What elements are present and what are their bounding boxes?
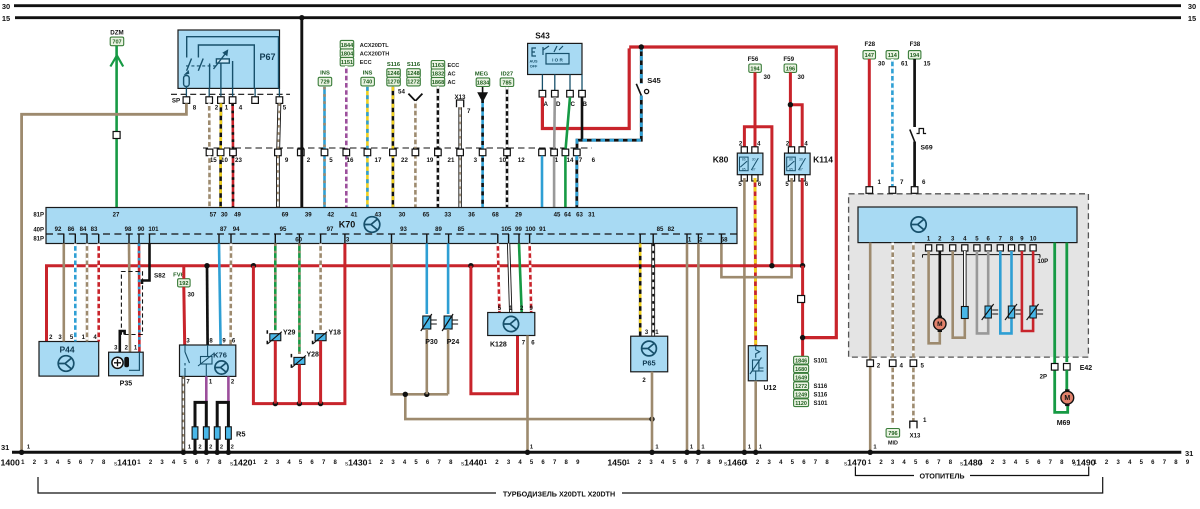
wire 15 supply line	[15, 16, 1181, 19]
svg-text:s1420: s1420	[230, 458, 253, 468]
svg-text:58: 58	[721, 237, 728, 244]
svg-text:Y18: Y18	[329, 330, 342, 337]
wire red K128 loop	[471, 266, 518, 394]
valve Y18	[313, 330, 341, 345]
ECU heater control unit	[858, 207, 1077, 265]
svg-text:AC: AC	[448, 72, 456, 78]
svg-text:147: 147	[865, 53, 874, 59]
svg-text:Y28: Y28	[307, 352, 320, 359]
wire red-blue K70 90 to P35 pin 1	[138, 244, 141, 353]
svg-text:U12: U12	[764, 385, 777, 392]
svg-text:87: 87	[752, 167, 756, 171]
svg-text:1272: 1272	[795, 384, 807, 390]
svg-text:P44: P44	[59, 345, 74, 355]
svg-text:196: 196	[786, 66, 795, 72]
heater module outline	[849, 194, 1089, 357]
wire P67 pin 4 red-black	[231, 103, 234, 149]
svg-text:93: 93	[400, 226, 407, 233]
wire S43 pin B stub	[581, 97, 584, 139]
svg-text:33: 33	[444, 212, 451, 219]
wire brown U12 to ground	[754, 381, 757, 451]
wire white-black K70 82 to P65 pin 1	[651, 244, 655, 337]
svg-text:15: 15	[1188, 14, 1196, 23]
sensor heater pins 5-6	[977, 251, 998, 333]
wire brown-white K70 97 to Y18	[319, 244, 322, 331]
svg-text:S101: S101	[814, 401, 829, 407]
wire white-brown K76 pin 7 to ground	[182, 376, 186, 451]
svg-text:86: 86	[789, 158, 793, 162]
wire to K70 pin 57	[208, 156, 211, 208]
svg-text:10P: 10P	[1038, 259, 1049, 265]
svg-text:1844: 1844	[341, 43, 354, 49]
wire green-brown K70 95 to Y29	[274, 244, 277, 331]
wire black P35 pin 3 shield tail	[120, 331, 125, 352]
svg-text:82: 82	[668, 226, 675, 233]
svg-text:100: 100	[525, 226, 536, 233]
svg-text:P24: P24	[447, 339, 460, 346]
motor M69	[1057, 389, 1074, 427]
wire brown P24 down	[447, 329, 450, 394]
svg-text:S101: S101	[814, 358, 829, 364]
svg-text:s1440: s1440	[461, 458, 484, 468]
svg-text:1680: 1680	[795, 367, 807, 373]
svg-text:30: 30	[1188, 2, 1196, 11]
svg-text:ТУРБОДИЗЕЛЬ X20DTL X20DTH: ТУРБОДИЗЕЛЬ X20DTL X20DTH	[503, 490, 615, 499]
svg-text:30: 30	[878, 61, 885, 68]
svg-text:DZM: DZM	[110, 30, 123, 37]
sensor heater pins 9-10	[1022, 251, 1043, 331]
svg-text:1270: 1270	[387, 80, 399, 86]
svg-text:1249: 1249	[795, 392, 807, 398]
svg-text:2: 2	[198, 445, 201, 451]
wire blue-brown to K70 pin 42	[323, 87, 326, 208]
svg-text:10: 10	[499, 157, 506, 164]
svg-text:31: 31	[1, 443, 9, 452]
fuse FV6 192	[173, 273, 195, 299]
wire red F56 to K80 pin 4	[754, 72, 757, 147]
connector S116 1246 1270	[387, 62, 406, 96]
svg-text:S116: S116	[407, 62, 421, 68]
wire P67 pin 1 yellow-black	[219, 103, 222, 149]
wire red-white K70 83 to P44 pin 4	[97, 244, 100, 342]
wire brown P67 SP pin 8 to ground	[22, 103, 187, 451]
svg-text:60: 60	[295, 237, 302, 244]
svg-text:45: 45	[554, 212, 561, 219]
wire to K70 pin 30	[219, 156, 222, 208]
wire green E42 to M69	[1065, 370, 1068, 391]
resistor R5 block	[192, 427, 245, 439]
svg-text:7: 7	[900, 179, 904, 186]
svg-text:43: 43	[375, 212, 382, 219]
svg-text:30: 30	[221, 212, 228, 219]
svg-text:42: 42	[327, 212, 334, 219]
node S43 pin letters	[543, 101, 587, 108]
svg-text:F28: F28	[864, 41, 875, 48]
wire brown-white to K70 pin 65	[414, 101, 417, 208]
connector X13 bottom	[910, 417, 927, 440]
svg-text:A: A	[543, 101, 548, 108]
wire green S43 pin C to K70 pin 64	[566, 97, 570, 149]
svg-text:1450: 1450	[607, 458, 626, 468]
svg-text:785: 785	[502, 80, 511, 86]
connector E42 2P	[1040, 364, 1093, 381]
svg-text:5: 5	[329, 157, 333, 164]
svg-text:40P: 40P	[33, 228, 44, 234]
svg-text:D: D	[556, 101, 561, 108]
svg-text:OFF: OFF	[530, 65, 538, 69]
svg-text:9: 9	[285, 157, 289, 164]
relay K128	[488, 306, 536, 349]
svg-text:2P: 2P	[1040, 375, 1047, 381]
wire red F59 to K114 pins 2 and 4	[788, 72, 803, 147]
wire red K80 pin 2 to red rail	[744, 127, 772, 266]
wire yellow-black K70 85 to P65 pin 3	[639, 244, 642, 337]
wire 30 supply line	[14, 4, 1181, 7]
K70 top pin labels	[113, 212, 596, 219]
svg-text:AC: AC	[448, 80, 456, 86]
svg-text:P35: P35	[120, 381, 133, 388]
svg-text:87: 87	[220, 226, 227, 233]
svg-text:21: 21	[448, 157, 455, 164]
svg-text:2: 2	[231, 445, 234, 451]
wire brown K70 98 to P35 pin 2	[129, 244, 130, 353]
svg-text:4: 4	[900, 363, 904, 370]
svg-text:AUS: AUS	[529, 60, 537, 64]
wire red top rail	[629, 44, 836, 337]
svg-text:s1470: s1470	[844, 458, 867, 468]
wire black-cyan S45 branch	[577, 47, 641, 149]
svg-text:3: 3	[474, 157, 478, 164]
svg-text:S45: S45	[647, 76, 661, 85]
wire red main rail row	[47, 263, 806, 342]
svg-text:K76: K76	[213, 351, 227, 360]
wire brown K70 92 to P44 pin 3	[62, 244, 65, 342]
svg-text:54: 54	[398, 89, 405, 96]
svg-text:1868: 1868	[432, 80, 444, 86]
svg-text:Y29: Y29	[283, 330, 296, 337]
sensor P30	[421, 314, 437, 331]
wire red Y28 down	[298, 364, 301, 403]
svg-text:30: 30	[799, 158, 803, 162]
wire red K114 pin 6 to S101 feed	[801, 178, 804, 266]
svg-text:2: 2	[209, 445, 212, 451]
wire blue-white 114 to heater unit	[891, 59, 894, 208]
switch S45	[636, 76, 661, 96]
svg-text:98: 98	[125, 226, 132, 233]
svg-text:95: 95	[280, 226, 287, 233]
bracket turbodiesel label	[38, 477, 1103, 499]
sensor P65	[631, 330, 668, 384]
wire brown K114 pin 5 to K70 pin 58	[721, 178, 791, 277]
connector DZM 707	[110, 30, 124, 46]
svg-text:85: 85	[657, 226, 664, 233]
svg-text:1832: 1832	[432, 71, 444, 77]
svg-text:1120: 1120	[795, 401, 807, 407]
svg-text:X13: X13	[910, 434, 921, 440]
svg-text:S69: S69	[921, 145, 933, 152]
svg-text:ID27: ID27	[501, 72, 513, 78]
svg-text:M: M	[1064, 395, 1070, 402]
svg-text:1804: 1804	[341, 51, 354, 57]
wire red S101 drop	[798, 266, 806, 357]
svg-text:22: 22	[401, 157, 408, 164]
wire red FV6 to K76 pin 3	[182, 266, 185, 279]
svg-text:192: 192	[179, 281, 188, 287]
wire black-white to K70 pin 33	[437, 86, 440, 207]
wire brown K128 pin 6 to ground	[526, 336, 529, 452]
connector inline on DZM wire	[113, 132, 120, 139]
wire brown-white K70 94 to K76 pin 6	[229, 244, 232, 346]
svg-text:81P: 81P	[33, 213, 44, 219]
svg-text:M69: M69	[1057, 420, 1071, 427]
wire P67 pin 5 white-brown	[278, 103, 279, 149]
connector MID 796	[886, 429, 900, 447]
svg-text:114: 114	[888, 53, 898, 59]
wire green to K70 pin 63	[564, 156, 567, 208]
svg-text:S116: S116	[814, 392, 828, 398]
svg-text:1834: 1834	[477, 80, 490, 86]
svg-text:86: 86	[742, 158, 746, 162]
svg-text:K70: K70	[339, 220, 356, 230]
svg-text:30: 30	[764, 74, 771, 81]
sensor heater pins 7-8	[1000, 251, 1021, 333]
svg-text:194: 194	[910, 53, 920, 59]
wire red Y29 down	[274, 341, 277, 404]
svg-text:105: 105	[501, 226, 512, 233]
svg-text:7: 7	[579, 157, 583, 164]
connector heater top squares	[866, 179, 926, 193]
svg-text:94: 94	[233, 226, 240, 233]
svg-text:15: 15	[2, 14, 10, 23]
connector ID27 785	[500, 72, 514, 87]
svg-text:S116: S116	[814, 384, 828, 390]
svg-text:1151: 1151	[341, 60, 353, 66]
sensor U12	[748, 346, 776, 392]
wire black F38 to heater unit	[913, 59, 916, 208]
svg-text:2: 2	[877, 363, 881, 370]
wire green K70 100 to K128 pin 2	[519, 244, 522, 313]
wire white K70 99 to K128 pin 1	[509, 244, 511, 313]
svg-text:s1490: s1490	[1073, 458, 1096, 468]
svg-text:s1430: s1430	[345, 458, 368, 468]
svg-text:87: 87	[799, 167, 803, 171]
connector INS 740	[361, 71, 375, 86]
svg-text:36: 36	[468, 212, 475, 219]
K70 bottom pin labels	[55, 226, 729, 243]
wire white-brown to K70 pin 36	[458, 107, 461, 207]
svg-text:2: 2	[699, 237, 703, 244]
wire blue K70 87 to K76 pin 9	[219, 244, 221, 346]
wire brown-white heater to MID 796	[891, 243, 894, 425]
bracket heater label	[855, 467, 1088, 481]
wire purple K76 pin 2	[227, 376, 230, 402]
svg-text:6: 6	[922, 179, 926, 186]
svg-text:S82: S82	[154, 273, 166, 280]
svg-text:F38: F38	[910, 41, 921, 48]
svg-text:16: 16	[347, 157, 354, 164]
svg-text:29: 29	[515, 212, 522, 219]
svg-text:69: 69	[282, 212, 289, 219]
svg-text:19: 19	[426, 157, 433, 164]
wire black rail to K76 pin 8	[206, 266, 209, 345]
svg-text:7: 7	[467, 108, 471, 115]
svg-text:90: 90	[138, 226, 145, 233]
shield S82	[121, 272, 165, 335]
relay K76	[180, 339, 236, 386]
wire brown K70 2 to ground	[697, 244, 700, 452]
svg-text:12: 12	[518, 157, 525, 164]
wire black-cyan to K70 pin 31	[575, 156, 578, 208]
svg-text:27: 27	[113, 212, 120, 219]
fuse F59 196	[783, 56, 805, 81]
svg-text:K114: K114	[813, 155, 833, 165]
sensor P35	[109, 352, 144, 387]
switch S43	[528, 32, 586, 97]
wire blue K70 89 to P30	[425, 244, 428, 315]
K70 lower connector hooks	[64, 234, 722, 243]
svg-text:64: 64	[564, 212, 571, 219]
wire black-white to K70 pin 29	[506, 87, 509, 208]
wire red Y loop	[253, 244, 345, 407]
svg-text:83: 83	[91, 226, 98, 233]
wire black-yellow to K70 pin 30	[392, 87, 395, 208]
svg-text:F56: F56	[748, 56, 759, 63]
svg-text:MID: MID	[888, 441, 898, 447]
valve Y29	[267, 330, 295, 345]
svg-text:23: 23	[235, 157, 242, 164]
svg-text:5: 5	[921, 363, 925, 370]
svg-text:I O R: I O R	[552, 58, 563, 63]
svg-text:ECC: ECC	[360, 60, 372, 66]
svg-text:30: 30	[752, 158, 756, 162]
connector 1163 1832 1868 ECC AC	[431, 61, 459, 87]
wire brown K70 93 net	[392, 244, 655, 422]
node P30 P24 labels	[425, 339, 459, 346]
svg-text:30: 30	[399, 212, 406, 219]
connector row P67 pins	[171, 88, 290, 111]
wire brown K80 pin 5 to ground	[743, 178, 746, 451]
svg-text:15: 15	[924, 61, 931, 68]
connector 1844 1804 1151 ACX20DTL	[340, 40, 389, 66]
connector X13 pin 7 top	[454, 94, 471, 115]
svg-text:MEG: MEG	[475, 72, 489, 78]
wire blue-black to K70 pin 68	[481, 99, 484, 208]
connector mid squares P67 group	[206, 149, 311, 164]
wire brown-white heater to X13	[912, 243, 915, 421]
ground wire labels	[27, 445, 878, 451]
svg-text:M: M	[937, 321, 942, 328]
fuse F38 194	[908, 41, 931, 68]
svg-text:SP: SP	[172, 98, 180, 105]
svg-text:85: 85	[789, 167, 793, 171]
svg-text:57: 57	[210, 212, 217, 219]
wire green-brown K70 60 to Y28	[298, 244, 301, 354]
svg-text:89: 89	[435, 226, 442, 233]
wire red-yellow K80 pin 6 to U12	[754, 178, 758, 346]
svg-text:K128: K128	[490, 342, 507, 349]
connector mid squares S43 group	[518, 149, 596, 164]
svg-text:1846: 1846	[795, 358, 807, 364]
wire brown P30 down	[425, 329, 428, 394]
svg-text:68: 68	[492, 212, 499, 219]
connector S101 S116 stack	[794, 356, 829, 407]
svg-text:S116: S116	[387, 62, 401, 68]
svg-text:ОТОПИТЕЛЬ: ОТОПИТЕЛЬ	[919, 472, 964, 481]
svg-text:49: 49	[234, 212, 241, 219]
svg-text:S43: S43	[535, 32, 550, 41]
svg-text:6: 6	[592, 157, 596, 164]
svg-text:INS: INS	[320, 71, 330, 77]
svg-text:s1460: s1460	[724, 458, 747, 468]
svg-text:1163: 1163	[432, 63, 444, 69]
svg-text:INS: INS	[363, 71, 373, 77]
wire black R5 bridge left	[195, 402, 206, 451]
svg-text:R5: R5	[236, 430, 246, 439]
svg-text:8: 8	[193, 105, 197, 112]
svg-text:17: 17	[375, 157, 382, 164]
svg-text:63: 63	[576, 212, 583, 219]
wire red S43 pin A to top rail	[542, 48, 629, 128]
fuse F56 194	[748, 56, 771, 81]
svg-text:1: 1	[878, 179, 882, 186]
wire green heater to E42 left	[1055, 243, 1068, 413]
wire green DZM to K70 pin 27	[110, 46, 123, 208]
svg-text:s1410: s1410	[114, 458, 137, 468]
svg-text:P65: P65	[642, 359, 655, 368]
wire gray S43 pin D to K70 pin 45	[553, 97, 556, 149]
connector MEG 1834	[475, 72, 490, 101]
svg-text:2: 2	[307, 157, 311, 164]
svg-text:85: 85	[458, 226, 465, 233]
svg-text:30: 30	[798, 74, 805, 81]
wire blue to K70 pin 45	[541, 156, 544, 208]
svg-text:30: 30	[2, 2, 10, 11]
svg-text:84: 84	[80, 226, 87, 233]
svg-text:F59: F59	[783, 56, 794, 63]
ECU K70 bus	[33, 208, 737, 244]
svg-text:10: 10	[1030, 236, 1037, 242]
svg-text:31: 31	[1185, 449, 1193, 458]
svg-text:P67: P67	[259, 52, 275, 62]
svg-text:1246: 1246	[387, 71, 399, 77]
svg-text:41: 41	[351, 212, 358, 219]
svg-text:ECC: ECC	[448, 63, 460, 69]
wire yellow-blue to K70 pin 43	[366, 87, 369, 208]
ground junction dots	[19, 450, 873, 455]
svg-text:K80: K80	[713, 155, 729, 165]
connector S116 1248 1272	[407, 62, 423, 101]
wire red-white K70 105 to K128 pin 5	[498, 244, 500, 313]
svg-text:194: 194	[750, 66, 760, 72]
svg-text:1272: 1272	[407, 80, 419, 86]
connector mid squares sensors group	[321, 149, 510, 164]
svg-text:ACX20DTL: ACX20DTL	[360, 43, 389, 49]
wire brown P65 pin 2 to ground	[651, 372, 654, 451]
wire brown-white K70 84 to P44 pin 1	[86, 244, 89, 342]
svg-text:15: 15	[210, 157, 217, 164]
svg-text:65: 65	[423, 212, 430, 219]
node P44 pin numbers	[49, 335, 97, 341]
wire brown heater to ground	[869, 243, 872, 451]
svg-text:C: C	[570, 101, 575, 108]
valve Y28	[291, 352, 319, 368]
svg-text:14: 14	[567, 157, 574, 164]
wire to K70 pin 49	[232, 156, 235, 208]
wire black from line 15 to K70 pin 39	[299, 15, 304, 208]
svg-text:85: 85	[742, 167, 746, 171]
connector row dashed mid	[203, 147, 592, 149]
connector heater bottom squares	[867, 360, 925, 370]
